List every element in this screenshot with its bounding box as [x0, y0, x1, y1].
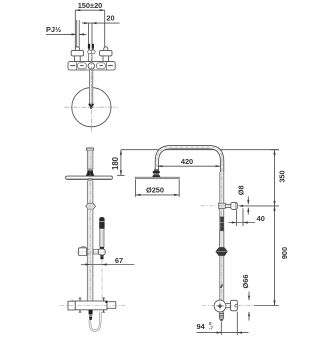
svg-text:-7: -7: [209, 326, 213, 331]
svg-text:150±20: 150±20: [78, 1, 103, 10]
hand shower outlet taper (front): [100, 255, 104, 259]
valve wall connection (side): [226, 300, 238, 311]
hose outlet (front): [89, 310, 93, 320]
slide holder (side): [215, 248, 227, 256]
svg-text:67: 67: [115, 256, 123, 265]
wall flange (side): [231, 202, 238, 209]
dimension 94 0/-7: [197, 312, 249, 335]
dimension Ø66: [248, 292, 250, 321]
center pipes to valve body (top view): [89, 54, 92, 62]
valve body (top view): [68, 62, 115, 70]
slide holder bar (front): [76, 247, 110, 256]
valve body circle (side): [214, 300, 226, 312]
center screw circles (top view): [88, 50, 95, 54]
svg-text:Ø8: Ø8: [237, 185, 246, 195]
cone connector at circle center (top view): [88, 104, 94, 109]
front shower head (edge view lens): [66, 176, 113, 179]
wall arm (side): [225, 204, 230, 207]
front centerline: [89, 147, 91, 299]
hand shower (side, hanging in front of pipe): [220, 217, 224, 248]
front valve trim rings: [79, 298, 105, 313]
threaded tail (side): [219, 312, 223, 321]
dimension 150±20: [75, 10, 104, 47]
dimension 420: [158, 165, 221, 167]
svg-text:180: 180: [111, 156, 120, 170]
head hub (front): [88, 179, 92, 181]
dimension 180: [117, 150, 279, 176]
left handle (top view): [71, 47, 83, 62]
front riser pipe mid: [87, 181, 93, 203]
svg-text:Ø250: Ø250: [146, 185, 164, 194]
valve centerline (side): [202, 305, 254, 307]
right handle (top view): [100, 47, 112, 62]
dimension 67: [81, 264, 135, 266]
hand shower head (front): [99, 217, 104, 229]
svg-text:900: 900: [280, 247, 289, 259]
front riser pipe lower: [87, 209, 93, 301]
dimension Ø8: [247, 197, 249, 215]
supply nut (front): [86, 203, 96, 209]
hand shower handle (front): [100, 229, 104, 249]
dimension 40: [229, 208, 256, 226]
front riser pipe upper: [87, 151, 93, 170]
svg-text:Ø66: Ø66: [241, 275, 250, 289]
gooseneck arch: [155, 145, 224, 172]
arm centerline: [201, 205, 241, 207]
dimension 20: [82, 23, 120, 44]
svg-text:350: 350: [277, 170, 286, 182]
svg-text:420: 420: [181, 157, 193, 166]
label PJ1/2 with leader: [46, 33, 87, 35]
shower head disc (side): [136, 177, 180, 179]
side riser pipe: [220, 172, 224, 301]
svg-text:20: 20: [106, 14, 114, 23]
riser pipe to shower head (top view): [89, 70, 92, 104]
svg-text:40: 40: [257, 214, 265, 223]
dimension 350: [270, 150, 279, 206]
front valve centerline: [60, 304, 126, 306]
left supply pipe (top view): [76, 20, 79, 48]
ball joint (side): [152, 169, 160, 177]
joint mark on riser (side): [220, 284, 223, 288]
hand shower centerline (front): [101, 260, 103, 312]
dark collar above head (front): [87, 168, 93, 170]
dimension 900: [254, 206, 279, 306]
svg-text:94: 94: [197, 322, 206, 331]
hose loop (front): [89, 312, 101, 332]
extension line to 350/900: [240, 205, 279, 207]
ball joint above head (front): [86, 172, 95, 176]
centerlines of head circle: [65, 49, 119, 132]
dimension Ø250: [136, 180, 180, 197]
svg-text:PJ½: PJ½: [46, 25, 61, 34]
wall supply tee (side): [218, 203, 225, 208]
shower head circle (top view): [72, 88, 111, 127]
side riser centerline: [221, 150, 223, 322]
center outlet pipes (top view): [88, 44, 94, 50]
front pipe top cap: [86, 148, 93, 151]
front valve body: [68, 300, 116, 310]
